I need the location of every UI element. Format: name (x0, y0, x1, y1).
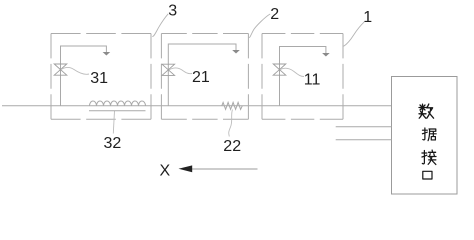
svg-text:1: 1 (363, 9, 372, 26)
svg-text:32: 32 (104, 135, 122, 152)
svg-text:22: 22 (223, 138, 241, 155)
svg-text:31: 31 (90, 70, 108, 87)
svg-text:2: 2 (270, 6, 279, 23)
svg-text:21: 21 (192, 69, 210, 86)
svg-text:3: 3 (168, 3, 177, 20)
svg-text:X: X (160, 163, 171, 180)
svg-text:11: 11 (304, 72, 321, 89)
